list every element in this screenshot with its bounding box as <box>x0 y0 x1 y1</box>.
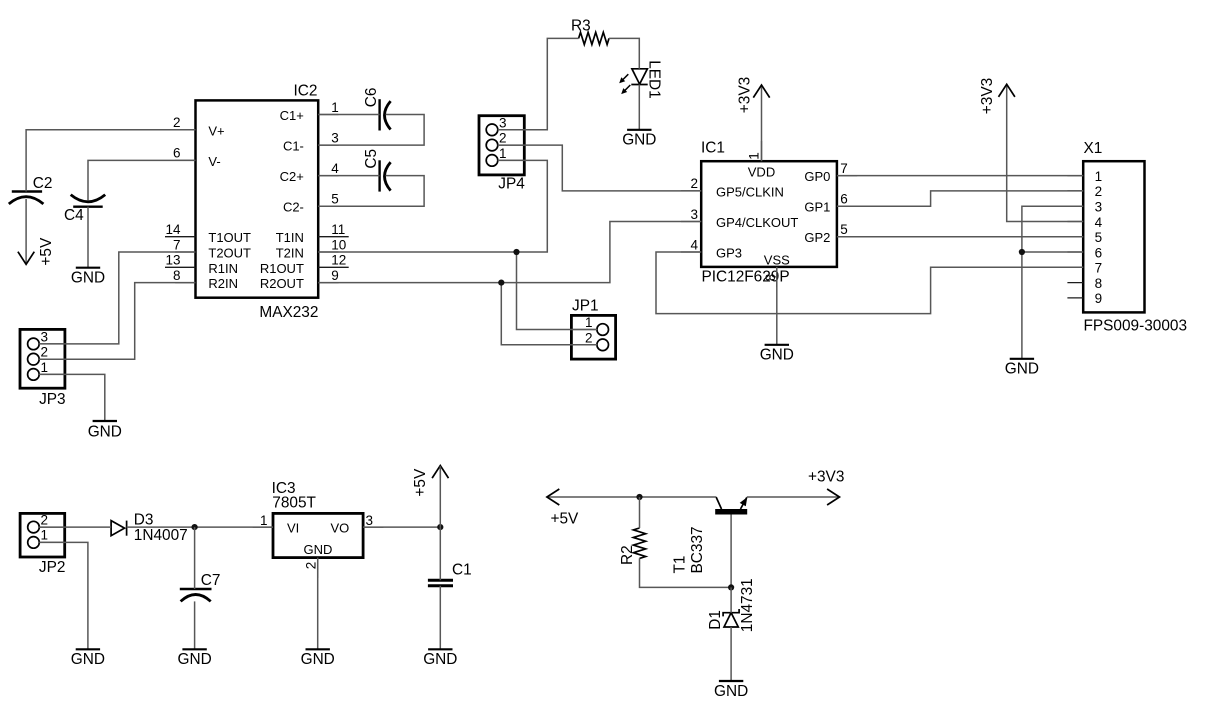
LED1 emission arrow 2 <box>624 85 631 92</box>
connector JP1 body <box>571 315 615 359</box>
svg-text:T1: T1 <box>671 556 688 574</box>
wire R2OUT (IC2.9) to GP4/CLKOUT (IC1.3) <box>318 222 701 283</box>
svg-text:GND: GND <box>622 132 656 149</box>
pin GP4/CLKOUT stub (pin 3) <box>681 221 701 223</box>
wire D3 to IC3.1 (VI) <box>127 526 273 528</box>
pin VO stub (pin 3) <box>363 526 383 528</box>
+3V3 up arrow at IC1 VDD <box>736 77 769 113</box>
wire V+ (IC2.2) to C2 <box>26 130 195 192</box>
connector JP3 body <box>20 329 65 388</box>
svg-text:+3V3: +3V3 <box>736 77 753 113</box>
svg-text:C7: C7 <box>201 572 221 589</box>
svg-text:5: 5 <box>331 192 339 207</box>
svg-text:1: 1 <box>331 100 339 115</box>
JP4 pin 2 circle <box>486 139 498 151</box>
+3V3 up arrow at X1 <box>979 78 1015 114</box>
wire C7 to GND <box>194 601 196 649</box>
C1 plate 2 <box>428 584 453 587</box>
C4 curved plate <box>71 195 106 202</box>
svg-text:2: 2 <box>585 330 593 345</box>
ground under IC1 VSS <box>760 345 794 364</box>
svg-text:+3V3: +3V3 <box>808 469 844 486</box>
capacitor C7 <box>180 572 221 601</box>
svg-text:1: 1 <box>41 360 49 375</box>
capacitor C2 <box>9 175 53 204</box>
svg-text:1: 1 <box>499 146 507 161</box>
svg-text:LED1: LED1 <box>645 60 662 98</box>
+5V left arrow on transistor rail <box>547 489 579 528</box>
T1 emitter arrowhead <box>740 497 748 506</box>
C1 plate 1 <box>428 579 453 582</box>
IC IC2 body <box>196 100 319 297</box>
pin GP0 stub (pin 7) <box>837 175 857 177</box>
wire node to C1 <box>439 527 441 580</box>
svg-text:GP5/CLKIN: GP5/CLKIN <box>716 184 784 199</box>
svg-text:C4: C4 <box>64 207 84 224</box>
wire GP0 (IC1.7) to X1.1 <box>837 175 1083 177</box>
svg-text:GND: GND <box>423 651 457 668</box>
JP1 pin 2 circle <box>597 339 609 351</box>
wire LED1 to GND <box>638 85 640 130</box>
pin R2IN stub (pin 8) <box>175 282 195 284</box>
svg-text:T1IN: T1IN <box>276 230 304 245</box>
ground under D1 <box>714 681 748 700</box>
C4 straight plate <box>73 205 103 207</box>
wire junction to C7 <box>194 527 196 589</box>
svg-text:+3V3: +3V3 <box>979 78 996 114</box>
wire C5 loop to C2- (IC2.5) <box>318 176 424 207</box>
svg-text:1: 1 <box>41 528 49 543</box>
connector X1 body <box>1083 161 1144 312</box>
svg-text:8: 8 <box>763 274 778 282</box>
svg-text:GND: GND <box>88 423 122 440</box>
ground under LED1 <box>622 130 656 149</box>
ground under JP2 <box>71 649 105 668</box>
wire GP3 (IC1.4) detour to X1.7 <box>656 252 1083 314</box>
svg-text:7805T: 7805T <box>272 495 316 512</box>
zener diode D1 1N4731 <box>707 578 756 632</box>
ground under JP3 <box>88 421 122 440</box>
svg-text:R3: R3 <box>571 17 591 34</box>
svg-text:1: 1 <box>1095 169 1103 184</box>
JP3 pin stubs <box>39 343 65 345</box>
X1 pin stubs 1-9 <box>1067 175 1083 177</box>
svg-text:GP2: GP2 <box>804 230 830 245</box>
svg-text:R1OUT: R1OUT <box>260 261 304 276</box>
pin R1IN stub (pin 13) <box>165 266 196 268</box>
svg-text:3: 3 <box>41 329 49 344</box>
svg-text:D1: D1 <box>707 610 724 630</box>
connector JP4 body <box>479 116 524 175</box>
svg-text:X1: X1 <box>1084 140 1103 157</box>
svg-text:6: 6 <box>173 146 181 161</box>
svg-text:T1OUT: T1OUT <box>208 230 251 245</box>
svg-text:R2OUT: R2OUT <box>260 276 304 291</box>
wire D1 to GND <box>730 627 732 681</box>
svg-text:3: 3 <box>331 130 339 145</box>
svg-text:3: 3 <box>499 115 507 130</box>
pin GP5/CLKIN stub (pin 2) <box>681 190 701 192</box>
C5 curved plate <box>385 162 391 190</box>
wire +3V3 arrow to X1.4 <box>1007 85 1083 222</box>
junction dot D3/C7 <box>192 524 198 530</box>
svg-text:6: 6 <box>1095 245 1103 260</box>
svg-text:4: 4 <box>1095 215 1103 230</box>
wire JP4.3 to R3 <box>498 38 579 129</box>
svg-text:R2IN: R2IN <box>208 276 238 291</box>
capacitor C5 <box>363 149 391 192</box>
capacitor C6 <box>363 88 391 131</box>
pin V+ stub (pin 2) <box>175 129 195 131</box>
svg-text:3: 3 <box>1095 200 1103 215</box>
resistor R3 <box>571 17 609 44</box>
wire +5V rail to T1 collector <box>547 496 716 498</box>
LED1 emission arrow 1 <box>622 74 629 81</box>
svg-text:2: 2 <box>499 131 507 146</box>
wire R2 to base node <box>640 558 732 587</box>
svg-text:MAX232: MAX232 <box>259 304 318 321</box>
svg-text:GP3: GP3 <box>716 246 742 261</box>
JP2 pin 2 circle <box>28 521 40 533</box>
pin T2IN stub (pin 10) <box>318 251 338 253</box>
wire node to +5V arrow <box>439 466 441 527</box>
svg-text:2: 2 <box>304 562 319 570</box>
svg-text:C5: C5 <box>363 149 380 169</box>
svg-text:13: 13 <box>165 253 180 268</box>
svg-text:3: 3 <box>366 513 374 528</box>
svg-text:2: 2 <box>173 115 181 130</box>
svg-text:C6: C6 <box>363 88 380 108</box>
wire branch R2OUT to JP1.2 <box>501 283 597 345</box>
wire C2+ (IC2.4) to C5 <box>318 175 379 177</box>
svg-text:2: 2 <box>1095 184 1103 199</box>
T1 emitter lead <box>741 497 747 509</box>
+3V3 right arrow on transistor rail <box>808 469 844 506</box>
wire T1 emitter to +3V3 rail <box>747 496 840 498</box>
resistor R2 <box>619 528 646 565</box>
svg-text:VI: VI <box>287 521 299 536</box>
svg-text:VSS: VSS <box>764 252 790 267</box>
wire JP4.2 to GP5/CLKIN (IC1.2) <box>498 145 702 191</box>
C2 straight plate <box>12 190 42 192</box>
svg-text:1N4007: 1N4007 <box>134 527 188 544</box>
ground under C4 <box>71 268 105 287</box>
pin C1- stub (pin 3) <box>318 144 338 146</box>
pin C1+ stub (pin 1) <box>318 114 338 116</box>
svg-text:GND: GND <box>304 542 333 557</box>
svg-text:IC2: IC2 <box>294 83 318 100</box>
svg-text:5: 5 <box>1095 230 1103 245</box>
svg-text:JP2: JP2 <box>39 559 66 576</box>
T1 base bar <box>715 509 747 515</box>
svg-text:GND: GND <box>177 651 211 668</box>
svg-text:GND: GND <box>71 651 105 668</box>
svg-text:8: 8 <box>173 268 181 283</box>
pin V- stub (pin 6) <box>175 159 195 161</box>
wire C4 to GND <box>87 207 89 268</box>
svg-text:GND: GND <box>71 269 105 286</box>
JP1 pin stubs <box>571 329 597 331</box>
svg-text:1N4731: 1N4731 <box>739 578 756 632</box>
JP2 pin 1 circle <box>28 537 40 549</box>
svg-text:GP0: GP0 <box>804 169 830 184</box>
pin GP3 stub (pin 4) <box>681 251 701 253</box>
junction dot R2 tap <box>636 494 642 500</box>
wire X1.3 to GND rail <box>1022 206 1083 359</box>
C7 curved plate <box>181 595 211 602</box>
wire T2IN (IC2.10) to JP4.1 <box>318 160 547 252</box>
wire GP2 (IC1.5) to X1.5 <box>837 236 1083 238</box>
wire GP1 (IC1.6) to X1.2 <box>837 191 1083 206</box>
ground under IC3 <box>301 649 335 668</box>
svg-text:BC337: BC337 <box>689 526 706 573</box>
svg-text:+5V: +5V <box>38 237 55 266</box>
pin R2OUT stub (pin 9) <box>318 282 338 284</box>
wire C1 to GND <box>439 586 441 650</box>
svg-text:R2: R2 <box>619 545 636 565</box>
connector JP2 body <box>20 513 65 557</box>
pin C2+ stub (pin 4) <box>318 175 338 177</box>
svg-text:1: 1 <box>260 513 268 528</box>
junction dot VO/C1 <box>437 524 443 530</box>
wire IC3.3 (VO) to +5V node <box>363 526 440 528</box>
pin T2OUT stub (pin 7) <box>175 251 195 253</box>
wire R2IN (IC2.8) to JP3.2 <box>39 283 195 360</box>
C2 curved plate <box>9 197 44 204</box>
pin GP2 stub (pin 5) <box>837 236 857 238</box>
svg-text:C2: C2 <box>33 175 53 192</box>
svg-text:9: 9 <box>331 268 339 283</box>
svg-text:6: 6 <box>840 192 848 207</box>
JP1 pin 1 circle <box>597 324 609 336</box>
svg-text:3: 3 <box>690 207 698 222</box>
svg-text:VO: VO <box>331 521 350 536</box>
wire IC3.2 to GND <box>317 558 319 650</box>
svg-text:2: 2 <box>690 176 698 191</box>
svg-text:1: 1 <box>585 315 593 330</box>
svg-text:11: 11 <box>331 222 345 237</box>
JP2 pin stubs <box>39 526 64 528</box>
junction dot T2IN branch <box>513 249 519 255</box>
junction dot R2OUT branch <box>498 280 504 286</box>
svg-text:4: 4 <box>690 237 698 252</box>
wire X1.6 to GND rail <box>1022 251 1083 253</box>
pin GND stub (pin 2) <box>317 558 319 578</box>
JP3 pin 2 circle <box>28 353 40 365</box>
svg-text:GND: GND <box>301 651 335 668</box>
T1 collector lead <box>716 497 721 509</box>
regulator IC3 body <box>273 513 363 557</box>
pin T1IN stub (pin 11) <box>318 236 349 238</box>
JP4 pin stubs <box>498 129 525 131</box>
svg-text:C2+: C2+ <box>280 169 304 184</box>
svg-text:8: 8 <box>1095 276 1103 291</box>
svg-text:14: 14 <box>165 222 181 237</box>
JP4 pin 3 circle <box>486 124 498 136</box>
svg-text:C1: C1 <box>452 561 472 578</box>
wire JP2.2 to D3 <box>39 526 111 528</box>
JP3 pin 3 circle <box>28 338 40 350</box>
wire tap to R2 <box>639 497 641 528</box>
wire T1 base to node <box>730 515 732 588</box>
svg-text:2: 2 <box>41 345 49 360</box>
pin VDD stub (pin 1) <box>761 141 763 161</box>
wire VDD (IC1.1) to +3V3 arrow <box>761 86 763 161</box>
C6 straight plate <box>378 99 380 130</box>
wire T2OUT (IC2.7) to JP3.3 <box>39 252 195 344</box>
wire branch T2IN to JP1.1 <box>517 252 598 330</box>
pin VSS stub (pin 8) <box>776 267 778 287</box>
svg-text:2: 2 <box>41 512 49 527</box>
IC IC1 body <box>701 161 837 267</box>
svg-text:1: 1 <box>747 152 762 160</box>
wire C6 loop to C1- (IC2.3) <box>318 115 424 146</box>
svg-text:VDD: VDD <box>748 165 775 180</box>
svg-text:GND: GND <box>714 683 748 700</box>
pin C2- stub (pin 5) <box>318 205 338 207</box>
svg-text:12: 12 <box>331 253 346 268</box>
wire node to D1 <box>730 587 732 612</box>
+5V down arrow at C2 <box>18 237 55 266</box>
capacitor C1 <box>428 561 472 586</box>
JP4 pin 1 circle <box>486 155 498 167</box>
LED LED1 <box>619 60 662 98</box>
wire VSS (IC1.8) to GND <box>776 267 778 345</box>
pin GP1 stub (pin 6) <box>837 205 857 207</box>
wire R3 to LED1 <box>609 38 639 68</box>
svg-text:C1+: C1+ <box>280 108 304 123</box>
capacitor C4 <box>64 195 105 224</box>
svg-text:GND: GND <box>1005 361 1039 378</box>
pin VI stub (pin 1) <box>253 526 273 528</box>
svg-text:4: 4 <box>331 161 339 176</box>
svg-text:+5V: +5V <box>551 511 580 528</box>
pin R1OUT stub (pin 12) <box>318 266 349 268</box>
svg-text:7: 7 <box>840 161 848 176</box>
ground under C7 <box>177 649 211 668</box>
svg-text:5: 5 <box>840 222 848 237</box>
JP3 pin 1 circle <box>28 369 40 381</box>
svg-text:V+: V+ <box>208 123 224 138</box>
svg-text:10: 10 <box>331 237 346 252</box>
svg-text:T2OUT: T2OUT <box>208 246 251 261</box>
svg-text:JP1: JP1 <box>572 298 599 315</box>
svg-text:+5V: +5V <box>412 468 429 497</box>
junction dot X1 GND rail <box>1019 249 1025 255</box>
svg-text:D3: D3 <box>134 511 154 528</box>
C5 straight plate <box>378 160 380 191</box>
C6 curved plate <box>385 101 391 129</box>
svg-text:9: 9 <box>1095 291 1103 306</box>
svg-text:IC1: IC1 <box>701 140 725 157</box>
svg-text:C2-: C2- <box>283 200 304 215</box>
svg-text:T2IN: T2IN <box>276 246 304 261</box>
C7 straight plate <box>180 588 212 590</box>
svg-text:FPS009-30003: FPS009-30003 <box>1084 318 1188 335</box>
ground under X1 <box>1005 359 1039 378</box>
svg-text:GP4/CLKOUT: GP4/CLKOUT <box>716 215 798 230</box>
wire JP2.1 to GND <box>39 542 88 649</box>
wire C1+ (IC2.1) to C6 <box>318 114 379 116</box>
svg-text:GND: GND <box>760 347 794 364</box>
junction dot base node <box>728 584 734 590</box>
svg-text:R1IN: R1IN <box>208 261 238 276</box>
wire C2 to +5V arrow <box>25 199 27 264</box>
svg-text:7: 7 <box>1095 261 1103 276</box>
svg-text:7: 7 <box>173 237 181 252</box>
wire V- (IC2.6) to C4 <box>88 160 196 200</box>
svg-text:JP3: JP3 <box>39 391 66 408</box>
ground under C1 <box>423 649 457 668</box>
pin T1OUT stub (pin 14) <box>165 236 196 238</box>
svg-text:V-: V- <box>208 154 220 169</box>
svg-text:GP1: GP1 <box>804 200 830 215</box>
diode D3 1N4007 <box>111 511 188 544</box>
svg-text:C1-: C1- <box>283 139 304 154</box>
wire JP3.1 to GND <box>39 374 105 421</box>
svg-text:JP4: JP4 <box>498 176 525 193</box>
+5V up arrow at C1 <box>412 466 449 497</box>
